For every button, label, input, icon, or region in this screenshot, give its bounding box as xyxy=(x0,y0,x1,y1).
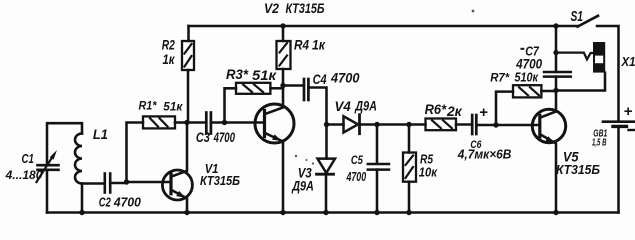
svg-text:R1*: R1* xyxy=(139,99,158,113)
svg-text:510к: 510к xyxy=(515,71,539,85)
svg-text:V2: V2 xyxy=(264,0,279,16)
svg-text:4700: 4700 xyxy=(346,169,367,184)
svg-text:КТ315Б: КТ315Б xyxy=(286,0,325,16)
svg-text:R7*: R7* xyxy=(490,71,510,85)
svg-text:КТ315Б: КТ315Б xyxy=(556,163,600,177)
svg-text:+: + xyxy=(624,103,633,120)
svg-text:V4: V4 xyxy=(335,98,352,114)
svg-text:4700: 4700 xyxy=(213,130,235,145)
svg-text:Д9А: Д9А xyxy=(355,97,377,113)
svg-text:C4: C4 xyxy=(313,71,327,87)
svg-text:R3*: R3* xyxy=(226,66,249,82)
svg-text:Д9А: Д9А xyxy=(291,178,313,194)
svg-text:+: + xyxy=(479,104,488,121)
svg-text:R6*: R6* xyxy=(425,101,447,117)
svg-text:4700: 4700 xyxy=(515,57,542,72)
svg-text:C1: C1 xyxy=(22,151,34,166)
svg-text:1к: 1к xyxy=(163,51,176,67)
svg-text:2к: 2к xyxy=(446,103,463,119)
svg-text:10к: 10к xyxy=(419,165,439,180)
svg-text:51к: 51к xyxy=(163,100,183,114)
svg-text:51к: 51к xyxy=(252,67,277,83)
svg-text:L1: L1 xyxy=(93,126,108,142)
svg-text:1к: 1к xyxy=(312,36,326,52)
svg-text:S1: S1 xyxy=(571,8,584,25)
svg-text:КТ315Б: КТ315Б xyxy=(200,173,240,188)
svg-text:R4: R4 xyxy=(294,36,309,52)
svg-text:C5: C5 xyxy=(351,153,363,167)
svg-text:1,5 В: 1,5 В xyxy=(592,137,607,149)
svg-text:4...180: 4...180 xyxy=(5,168,43,182)
svg-text:X1: X1 xyxy=(621,54,635,69)
svg-text:4700: 4700 xyxy=(113,194,142,209)
svg-text:4700: 4700 xyxy=(330,71,360,86)
svg-text:4,7мк×6В: 4,7мк×6В xyxy=(457,148,512,162)
svg-text:C3: C3 xyxy=(196,129,210,145)
svg-text:C2: C2 xyxy=(99,194,112,209)
